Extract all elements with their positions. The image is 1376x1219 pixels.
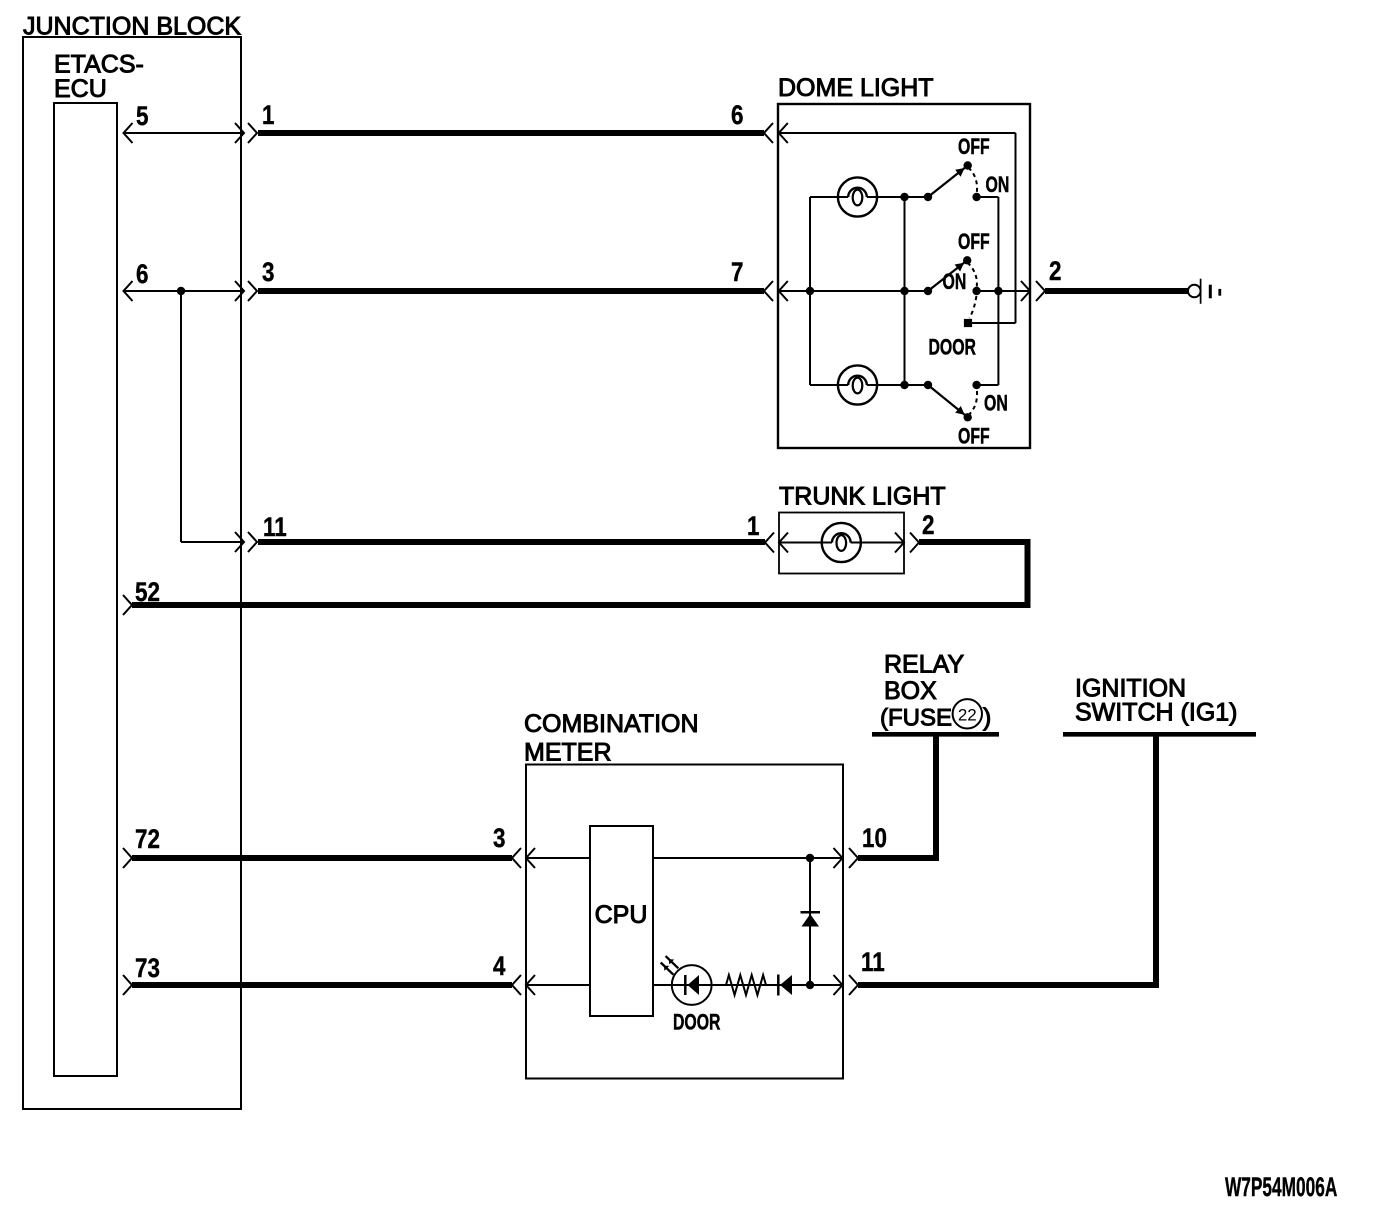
- svg-text:2: 2: [922, 511, 934, 540]
- svg-text:5: 5: [136, 102, 149, 131]
- svg-text:ON: ON: [984, 392, 1008, 416]
- svg-text:(FUSE: (FUSE: [880, 705, 952, 732]
- svg-text:BOX: BOX: [884, 677, 937, 705]
- svg-text:CPU: CPU: [595, 901, 648, 929]
- svg-text:2: 2: [1049, 257, 1061, 286]
- svg-text:72: 72: [135, 825, 160, 854]
- svg-text:OFF: OFF: [958, 425, 990, 449]
- svg-text:TRUNK LIGHT: TRUNK LIGHT: [779, 483, 946, 511]
- svg-text:11: 11: [861, 948, 885, 977]
- svg-text:ON: ON: [943, 271, 967, 295]
- svg-text:DOOR: DOOR: [673, 1011, 721, 1035]
- svg-text:): ): [983, 704, 991, 732]
- svg-text:COMBINATION: COMBINATION: [524, 710, 699, 738]
- svg-text:1: 1: [747, 512, 760, 541]
- svg-text:DOOR: DOOR: [929, 336, 977, 360]
- svg-text:ON: ON: [986, 174, 1010, 198]
- svg-text:JUNCTION BLOCK: JUNCTION BLOCK: [23, 13, 241, 41]
- svg-text:3: 3: [493, 824, 505, 853]
- svg-text:DOME LIGHT: DOME LIGHT: [778, 74, 934, 102]
- svg-text:1: 1: [262, 101, 275, 130]
- svg-text:6: 6: [136, 260, 148, 289]
- svg-text:11: 11: [263, 513, 287, 542]
- svg-text:22: 22: [958, 706, 977, 725]
- svg-text:4: 4: [493, 952, 506, 981]
- svg-text:6: 6: [731, 101, 743, 130]
- svg-text:3: 3: [262, 258, 274, 287]
- svg-text:W7P54M006A: W7P54M006A: [1225, 1171, 1337, 1202]
- svg-text:METER: METER: [524, 739, 612, 767]
- svg-text:10: 10: [862, 824, 887, 853]
- svg-text:OFF: OFF: [958, 136, 990, 160]
- svg-text:RELAY: RELAY: [884, 651, 964, 679]
- svg-text:ECU: ECU: [54, 75, 107, 103]
- svg-text:OFF: OFF: [958, 231, 990, 255]
- svg-text:7: 7: [731, 258, 743, 287]
- svg-text:SWITCH (IG1): SWITCH (IG1): [1075, 699, 1238, 727]
- svg-text:52: 52: [135, 578, 160, 607]
- svg-text:73: 73: [135, 954, 160, 983]
